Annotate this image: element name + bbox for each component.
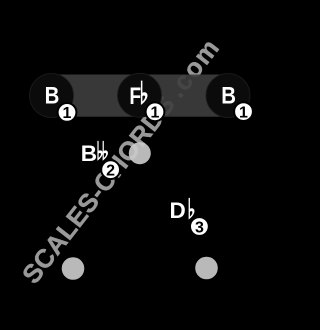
svg-text:1: 1: [239, 104, 248, 121]
svg-text:3: 3: [195, 219, 204, 236]
svg-text:D: D: [169, 198, 185, 223]
svg-text:1: 1: [151, 105, 160, 122]
svg-text:B: B: [221, 82, 236, 109]
svg-text:1: 1: [63, 105, 72, 122]
svg-text:F: F: [129, 82, 141, 110]
svg-text:B: B: [45, 82, 60, 109]
svg-text:2: 2: [106, 163, 115, 180]
svg-text:B: B: [81, 141, 97, 166]
